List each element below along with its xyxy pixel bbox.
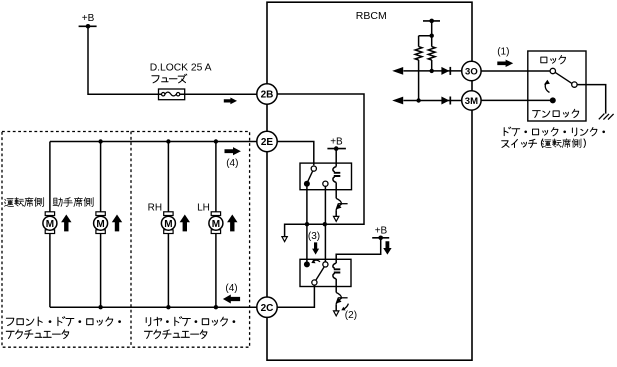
- svg-text:(4): (4): [226, 158, 238, 169]
- svg-text:2E: 2E: [261, 137, 274, 148]
- svg-text:M: M: [46, 219, 54, 230]
- svg-text:M: M: [212, 219, 220, 230]
- svg-text:(2): (2): [345, 310, 357, 321]
- svg-text:D.LOCK 25 A: D.LOCK 25 A: [150, 62, 212, 73]
- svg-text:3O: 3O: [465, 67, 478, 78]
- svg-text:(3): (3): [308, 231, 320, 242]
- svg-text:LH: LH: [197, 202, 210, 213]
- svg-text:+B: +B: [82, 13, 95, 24]
- svg-text:3M: 3M: [465, 96, 478, 107]
- svg-text:2C: 2C: [261, 303, 274, 314]
- svg-text:(1): (1): [497, 46, 509, 57]
- svg-text:2B: 2B: [261, 90, 274, 101]
- svg-text:RBCM: RBCM: [356, 10, 387, 22]
- svg-text:RH: RH: [148, 202, 162, 213]
- svg-text:+B: +B: [330, 137, 343, 148]
- svg-text:M: M: [96, 219, 104, 230]
- svg-text:(4): (4): [225, 283, 237, 294]
- svg-text:+B: +B: [375, 226, 388, 237]
- svg-text:M: M: [164, 219, 172, 230]
